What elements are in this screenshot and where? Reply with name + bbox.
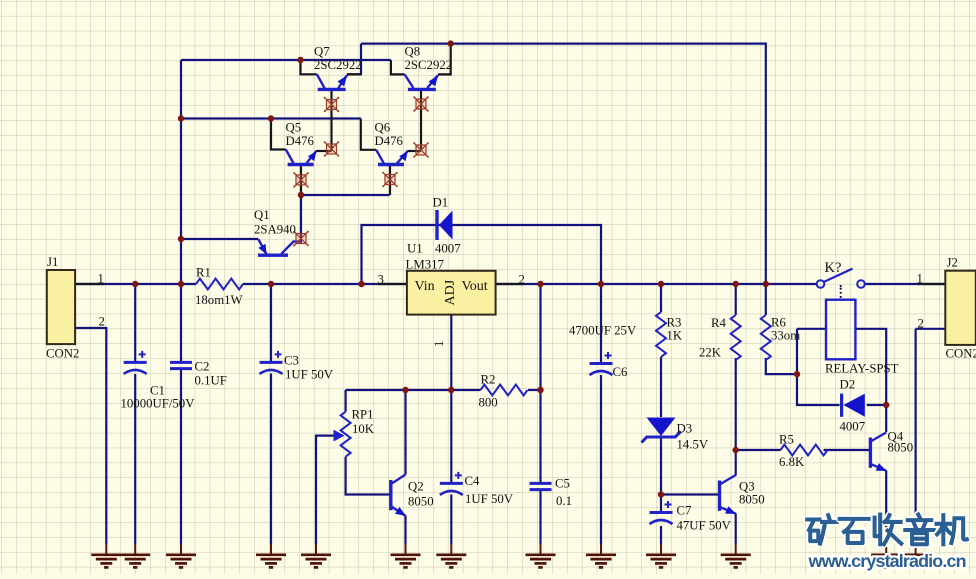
svg-text:8050: 8050: [739, 493, 765, 507]
wire R6 top lead: [765, 284, 767, 315]
wire left vertical rail x181 upper: [180, 60, 182, 362]
svg-text:ADJ: ADJ: [443, 279, 458, 305]
junction R2 right / C5 column: [537, 387, 543, 393]
capacitor C2: [170, 362, 192, 368]
svg-text:2: 2: [519, 273, 525, 287]
junction R6 / relay pin column: [794, 371, 800, 377]
capacitor C3: [260, 351, 283, 374]
transistor Q3: [720, 475, 736, 514]
junction D2 / Q4 collector: [883, 402, 889, 408]
pin Q6 emitter lead: [408, 150, 422, 152]
junction Q5 base / Q1 collector: [298, 192, 304, 198]
transistor Q4: [870, 433, 886, 471]
wire C3 branch upper: [270, 284, 272, 362]
wire main input bus J1 to R1: [75, 283, 196, 285]
wire RP1 wiper to ground: [316, 436, 334, 544]
ground J2 pin2: [901, 544, 931, 567]
capacitor C7: [650, 501, 673, 524]
resistor R3: [656, 312, 666, 357]
ground C7: [646, 544, 676, 567]
svg-text:C7: C7: [677, 504, 693, 518]
svg-text:www.crystalradio.cn: www.crystalradio.cn: [808, 551, 966, 571]
pin Q5 collector lead: [271, 119, 286, 150]
wire R4 top lead: [735, 284, 737, 315]
svg-text:R4: R4: [711, 316, 727, 330]
pin Q7 base stem: [330, 91, 332, 151]
wire switch to J2 pin1: [865, 283, 946, 285]
svg-text:6.8K: 6.8K: [779, 455, 805, 469]
svg-text:2SC2922: 2SC2922: [405, 58, 453, 72]
svg-text:1UF 50V: 1UF 50V: [465, 492, 514, 506]
svg-text:14.5V: 14.5V: [677, 438, 709, 452]
svg-text:Q2: Q2: [408, 480, 424, 494]
wire relay left pin horizontal: [797, 328, 826, 330]
svg-text:CON2: CON2: [946, 347, 976, 361]
wire Q7/Q8 collector bus y60: [181, 59, 391, 61]
svg-text:J1: J1: [47, 255, 58, 269]
wire LM317 ADJ pin down: [450, 315, 452, 390]
wire top bus from Q7/Q8 emitters to relay column: [361, 44, 766, 284]
svg-text:Vin: Vin: [415, 279, 435, 294]
pin Q7 collector lead: [301, 60, 317, 74]
svg-text:4007: 4007: [435, 242, 461, 256]
junction left rail / Q1 emitter: [178, 236, 184, 242]
svg-text:18om1W: 18om1W: [195, 293, 244, 307]
svg-text:U1: U1: [407, 242, 423, 256]
svg-text:8050: 8050: [888, 441, 914, 455]
junction left rail / input bus: [178, 281, 184, 287]
svg-text:J2: J2: [947, 256, 958, 270]
wire C1 branch upper: [134, 284, 136, 362]
wire Q3 base from zener node: [661, 493, 719, 495]
ground RP1 wiper: [301, 544, 331, 567]
ground C6: [586, 544, 616, 567]
junction C6 column / output bus: [598, 281, 604, 287]
wire Q2 emitter to ground: [404, 516, 406, 545]
connector J2 body: [945, 271, 976, 345]
switch-relay dotted link: [840, 285, 842, 298]
svg-text:D476: D476: [286, 134, 315, 148]
ground C5: [526, 544, 556, 567]
wire RP1 top lead: [345, 390, 347, 412]
capacitor C4: [440, 472, 463, 495]
wire C6 branch lower: [600, 375, 602, 544]
wire C3 branch lower: [270, 374, 272, 545]
diode D1: [437, 210, 453, 240]
svg-text:CON2: CON2: [46, 347, 79, 361]
wire relay left pin down and D2 left lead: [797, 329, 840, 405]
wire C4 branch upper: [450, 390, 452, 483]
wire J1 pin2 down to ground: [75, 328, 106, 544]
wire D2 right lead: [867, 404, 886, 406]
svg-text:Q1: Q1: [254, 208, 270, 222]
junction R4 / R5 / Q3 collector: [733, 447, 739, 453]
pin LM317 pin3 stub: [378, 283, 407, 285]
ground C3: [256, 544, 286, 567]
wire C7 branch lower: [660, 526, 662, 544]
wire R4 bottom to R5 node: [735, 358, 737, 450]
ground J1 pin2: [91, 544, 121, 567]
wire C7 branch upper: [660, 495, 662, 512]
svg-text:1K: 1K: [667, 329, 683, 343]
resistor R2: [481, 385, 528, 396]
svg-text:0.1UF: 0.1UF: [195, 374, 227, 388]
svg-text:3: 3: [378, 273, 384, 287]
wire main input bus R1 to LM317 Vin: [243, 283, 407, 285]
svg-text:C3: C3: [284, 354, 299, 368]
svg-text:Q3: Q3: [739, 480, 755, 494]
no-ERC marker Q7 base: [324, 97, 340, 113]
junction D3 / C7 / Q3 base: [658, 491, 664, 497]
resistor R6: [761, 315, 771, 360]
svg-text:Q7: Q7: [314, 45, 330, 59]
svg-text:D3: D3: [677, 422, 693, 436]
svg-text:4700UF 25V: 4700UF 25V: [569, 324, 637, 338]
svg-text:2: 2: [99, 315, 105, 329]
svg-text:C4: C4: [465, 474, 481, 488]
pin Q8 emitter lead: [438, 44, 451, 75]
wire C5 branch lower: [539, 491, 541, 544]
junction D1 riser / input bus: [358, 281, 364, 287]
potentiometer RP1: [334, 412, 351, 457]
svg-text:R2: R2: [481, 373, 496, 387]
wire R5 row right to Q4 base: [824, 449, 870, 451]
junction C3 / input bus: [268, 281, 274, 287]
pin Q5 base stem: [300, 166, 302, 195]
junction ADJ / R2 row: [448, 387, 454, 393]
svg-text:2: 2: [918, 317, 924, 331]
wire Q5/Q6 base bus y195: [301, 194, 390, 196]
junction C1 / input bus: [132, 281, 138, 287]
ground Q3 emitter: [721, 544, 751, 567]
zener diode D3: [642, 418, 681, 443]
svg-text:RELAY-SPST: RELAY-SPST: [825, 362, 899, 376]
svg-text:33om: 33om: [771, 329, 800, 343]
diode D2: [842, 394, 865, 417]
pin LM317 pin2 stub: [496, 283, 524, 285]
wire Q3 emitter to ground: [735, 514, 737, 545]
svg-text:Q5: Q5: [286, 121, 302, 135]
svg-text:2SC2922: 2SC2922: [314, 58, 362, 72]
pin Q6 collector lead: [361, 119, 376, 150]
svg-text:1UF 50V: 1UF 50V: [285, 368, 334, 382]
wire C4 branch lower: [450, 495, 452, 545]
junction left rail / Q5 bus: [178, 115, 184, 121]
switch K?: [817, 269, 865, 288]
wire Q4 collector riser: [885, 405, 887, 432]
svg-text:C5: C5: [555, 477, 570, 491]
wire output bus LM317 Vout to switch: [496, 283, 817, 285]
ground Q2 emitter: [391, 544, 421, 567]
no-ERC marker Q5 base: [293, 172, 309, 188]
pin J2 pin1 stub: [917, 283, 945, 285]
resistor R5: [781, 445, 828, 456]
relay RELAY-SPST coil box: [826, 300, 855, 360]
wire Q2 collector riser: [404, 390, 406, 475]
svg-text:LM317: LM317: [406, 258, 445, 272]
svg-text:R5: R5: [779, 433, 794, 447]
wire C5 branch upper: [539, 284, 541, 483]
transistor Q8: [405, 74, 438, 89]
pin Q8 base stem: [420, 91, 422, 151]
pin Q7 emitter lead: [347, 73, 361, 75]
pin Q6 base stem: [389, 165, 391, 195]
capacitor C6: [590, 352, 613, 375]
wire relay right pin and drop: [855, 329, 886, 405]
svg-text:K?: K?: [825, 260, 842, 276]
svg-text:1: 1: [917, 272, 923, 286]
svg-text:800: 800: [479, 396, 498, 410]
wire R3 top lead: [660, 284, 662, 312]
svg-text:R1: R1: [196, 266, 211, 280]
no-ERC marker Q5 emitter: [324, 141, 340, 157]
svg-text:R6: R6: [771, 316, 787, 330]
junction R6 / output bus: [763, 281, 769, 287]
wire Q5/Q6 collector bus y118.5: [181, 117, 361, 119]
pin Q5 emitter lead: [316, 150, 331, 152]
transistor Q1 (PNP): [258, 240, 301, 256]
no-ERC marker Q8 base: [413, 96, 429, 112]
svg-text:D476: D476: [375, 134, 404, 148]
wire R6 bottom to relay pin column: [766, 358, 797, 374]
wire D3 to C7 node: [660, 438, 662, 495]
no-ERC marker Q1 collector: [293, 231, 309, 247]
pin Q8 collector lead: [391, 60, 405, 74]
svg-text:C6: C6: [613, 365, 629, 379]
wire R2 row right: [528, 389, 541, 391]
wire R3 to D3: [660, 357, 662, 417]
watermark logo 矿石收音机: [807, 515, 967, 545]
svg-text:0.1: 0.1: [556, 494, 572, 508]
junction C5 column / output bus: [537, 281, 543, 287]
svg-text:D2: D2: [840, 378, 856, 392]
capacitor C1: [124, 351, 147, 374]
svg-text:2SA940: 2SA940: [254, 223, 296, 237]
svg-text:Q6: Q6: [375, 121, 391, 135]
wire C1 branch lower: [134, 374, 136, 544]
transistor Q5: [286, 150, 317, 165]
svg-text:Vout: Vout: [462, 279, 488, 294]
svg-text:R3: R3: [667, 316, 682, 330]
ground C2: [166, 544, 196, 567]
resistor R1: [196, 279, 243, 290]
junction Q7 collector: [297, 57, 303, 63]
svg-text:Q8: Q8: [405, 45, 421, 59]
ground C1: [120, 544, 150, 567]
svg-text:D1: D1: [433, 196, 449, 210]
connector J1 body: [47, 270, 75, 344]
wire J2 pin2 horizontal: [916, 328, 946, 330]
svg-text:C2: C2: [195, 360, 210, 374]
svg-text:10000UF/50V: 10000UF/50V: [121, 397, 196, 411]
svg-text:10K: 10K: [352, 422, 375, 436]
svg-text:4007: 4007: [840, 420, 866, 434]
svg-text:8050: 8050: [408, 495, 434, 509]
svg-text:22K: 22K: [699, 346, 722, 360]
capacitor C5: [530, 483, 552, 489]
pin J1 pin1 stub: [75, 283, 104, 285]
junction Q5 collector: [268, 115, 274, 121]
svg-text:47UF 50V: 47UF 50V: [677, 519, 732, 533]
wire C6 branch upper: [600, 284, 602, 363]
wire R2 row left: [346, 389, 481, 391]
junction R4 / output bus: [733, 281, 739, 287]
transistor Q7: [317, 74, 347, 89]
ground C4: [436, 544, 466, 567]
wire x361 link top bus to Q7 emitter: [347, 44, 361, 75]
wire Q4 emitter to ground: [885, 471, 887, 545]
svg-text:1: 1: [432, 341, 446, 347]
resistor R4: [731, 315, 741, 360]
IC U1 LM317 body: [407, 271, 496, 315]
wire Q1 collector riser x301: [300, 195, 302, 244]
wire RP1 bottom to Q2 base: [346, 457, 391, 495]
transistor Q2: [391, 475, 406, 516]
junction Q8 emitter / top bus: [448, 40, 454, 46]
no-ERC marker Q6 base: [382, 172, 398, 188]
wire Q3 collector riser: [735, 450, 737, 476]
wire Q1 emitter wire y239: [181, 238, 259, 240]
ground Q4 emitter: [871, 544, 901, 567]
wire R5 row left: [736, 449, 781, 451]
wire J2 pin2 down to ground: [914, 329, 916, 544]
wire left vertical rail x181 lower (below C2): [180, 370, 182, 544]
no-ERC marker Q6 emitter: [413, 142, 429, 158]
svg-text:RP1: RP1: [352, 408, 374, 422]
junction R3 / output bus: [658, 281, 664, 287]
wire D1 loop riser/cross/drop: [362, 225, 602, 284]
junction Q2 collector / R2 row: [402, 387, 408, 393]
transistor Q6: [376, 150, 408, 165]
svg-text:1: 1: [98, 272, 104, 286]
svg-text:C1: C1: [150, 384, 165, 398]
